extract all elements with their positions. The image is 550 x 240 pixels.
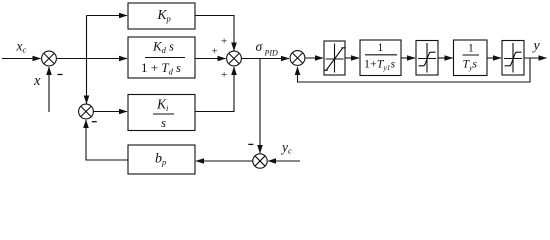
svg-text:1: 1: [468, 42, 474, 54]
block T1 first order lag: [360, 40, 401, 76]
sign plus at S4 top: [221, 36, 227, 48]
wire Kp to S4: [195, 16, 234, 51]
wire T1 to L2: [401, 57, 415, 59]
svg-text:Tys: Tys: [463, 57, 478, 73]
wire x_c input: [2, 58, 41, 60]
block Ki: [128, 95, 195, 131]
wire S4 to S5: [241, 58, 289, 60]
wire S3 to bp: [196, 160, 253, 162]
svg-text:1+Ty1s: 1+Ty1s: [364, 57, 396, 73]
svg-text:σ: σ: [256, 39, 264, 54]
svg-text:Ki: Ki: [156, 97, 169, 114]
label x: [33, 73, 41, 89]
block saturation L3: [502, 41, 524, 76]
label x_c: [16, 39, 27, 55]
wire branch to Kp: [87, 15, 128, 17]
wire Kd to S4: [195, 58, 226, 60]
svg-text:Kp: Kp: [157, 7, 171, 24]
wire x feedback input: [48, 67, 50, 112]
wire branch vertical to Kp and S2: [86, 16, 88, 104]
svg-text:+: +: [221, 36, 227, 48]
wire L2 to T2: [438, 57, 453, 59]
label y_c: [280, 140, 292, 156]
svg-text:+: +: [221, 69, 227, 81]
wire T2 to L3: [487, 57, 501, 59]
wire bp to S2: [86, 120, 128, 160]
sign plus at S4 left: [212, 46, 218, 58]
summing junction S1: [42, 51, 57, 66]
svg-text:x: x: [33, 73, 41, 89]
svg-text:1: 1: [378, 42, 384, 54]
svg-text:y: y: [532, 39, 541, 54]
wire sigma branch to S3: [259, 59, 261, 154]
block bp: [128, 145, 195, 174]
block limiter L1: [324, 41, 346, 75]
wire S2 to Ki: [93, 111, 127, 113]
summing junction S2: [79, 104, 94, 119]
wire y_c input: [268, 160, 300, 162]
sign minus at S3: [248, 143, 253, 145]
svg-text:1 + Td s: 1 + Td s: [141, 60, 181, 77]
wire L1 to T1: [345, 57, 359, 59]
wire output y: [524, 57, 547, 59]
svg-text:Kd s: Kd s: [152, 39, 174, 56]
svg-text:yc: yc: [280, 140, 292, 156]
label y: [532, 39, 541, 54]
block T2 integrator: [454, 40, 488, 76]
wire Ki to S4: [195, 67, 234, 112]
sign minus at S1: [58, 74, 63, 76]
wire S1 to Kd block: [56, 58, 127, 60]
svg-text:+: +: [212, 46, 218, 58]
label sigma_PID: [256, 39, 279, 57]
svg-text:xc: xc: [16, 39, 27, 55]
sign minus at S2: [92, 121, 97, 123]
summing junction S5: [290, 51, 305, 66]
block saturation L2: [416, 41, 438, 76]
svg-text:bp: bp: [155, 152, 166, 168]
wire S5 to limiter L1: [305, 57, 323, 59]
block Kp: [128, 3, 195, 29]
summing junction S4: [227, 51, 242, 66]
block Kd: [128, 37, 195, 78]
svg-text:PID: PID: [264, 48, 279, 57]
wire feedback y to S5: [298, 58, 531, 82]
sign plus at S4 bottom: [221, 69, 227, 81]
summing junction S3: [253, 154, 267, 168]
svg-text:s: s: [161, 115, 166, 130]
